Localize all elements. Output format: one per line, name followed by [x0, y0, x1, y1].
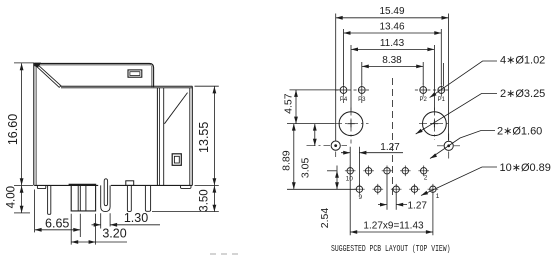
dim 15.49 line — [336, 17, 449, 19]
dim 3.05 line — [314, 124, 316, 146]
svg-text:1.27: 1.27 — [408, 200, 428, 211]
svg-text:1: 1 — [436, 193, 440, 200]
svg-text:15.49: 15.49 — [379, 6, 404, 17]
svg-text:1.30: 1.30 — [124, 211, 148, 225]
svg-text:1.27: 1.27 — [380, 142, 400, 153]
pin 4 extension lines for dim 1.30 — [101, 213, 110, 228]
dim 4.57 line — [295, 90, 297, 124]
big hole left — [339, 112, 363, 136]
svg-text:4.57: 4.57 — [282, 93, 294, 114]
dim 8.38 line — [362, 65, 423, 67]
svg-text:2: 2 — [424, 174, 428, 181]
pin 3 block pin body — [71, 185, 95, 211]
dim 1.27 lower line — [378, 204, 407, 206]
grid pad row2 — [354, 184, 438, 195]
svg-text:P2: P2 — [420, 97, 428, 103]
dim 11.43 line — [351, 48, 434, 50]
dim 3.20 extension lines — [71, 214, 95, 245]
svg-text:SUGGESTED PCB LAYOUT (TOP VIEW: SUGGESTED PCB LAYOUT (TOP VIEW) — [331, 243, 451, 254]
svg-text:3.50: 3.50 — [199, 189, 211, 211]
dim 13.55 extension lines — [195, 86, 219, 185]
dim 6.65 extension lines — [35, 190, 81, 238]
flange left vertical edges — [156, 88, 158, 185]
pad P4 — [335, 83, 351, 103]
svg-text:9: 9 — [358, 194, 362, 201]
dim 1.27 upper line — [341, 152, 403, 154]
leader 4*D1.02 — [430, 61, 497, 98]
dim 8.38 extension lines — [362, 62, 423, 85]
relay body inner edge lines — [36, 65, 151, 185]
body bottom edge — [34, 184, 192, 186]
dim 3.50 line — [213, 186, 215, 212]
dim 1.27 upper ticks — [350, 147, 359, 186]
svg-text:13.46: 13.46 — [379, 22, 404, 33]
dim 11.43 extension lines — [351, 45, 434, 111]
svg-text:10∗Ø0.89: 10∗Ø0.89 — [500, 162, 551, 174]
dim 1.27x9 extension lines — [350, 158, 433, 235]
dim 1.27 lower extension lines — [387, 176, 396, 210]
svg-text:3.20: 3.20 — [102, 227, 126, 241]
pin 6 thin pin — [145, 185, 150, 211]
pin 4 fork pin outer — [101, 185, 110, 211]
svg-text:2∗Ø1.60: 2∗Ø1.60 — [497, 125, 542, 137]
svg-text:8.89: 8.89 — [280, 150, 292, 171]
dim 3.20 line — [71, 241, 127, 243]
dim 16.60 line — [21, 63, 23, 185]
flange diagonal chamfer — [164, 93, 187, 124]
top face front edge double line — [60, 85, 193, 87]
svg-text:1.27x9=11.43: 1.27x9=11.43 — [363, 221, 424, 232]
top-left chamfer double line — [37, 64, 62, 87]
leader 2*D3.25 — [416, 94, 497, 135]
bottom tab under flange — [181, 185, 192, 188]
left extension line bottom grid row — [287, 188, 356, 190]
dim 13.46 extension lines — [344, 29, 444, 86]
pin 3 block pin cap — [69, 184, 97, 186]
dim 4.00 line — [21, 186, 23, 213]
svg-text:16.60: 16.60 — [6, 114, 20, 145]
pin 3 internal lines — [78, 185, 86, 211]
small hole right — [444, 141, 453, 150]
vent rectangle on top face — [128, 70, 142, 77]
dim 15.49 extension lines — [336, 14, 449, 141]
dim 13.46 line — [344, 32, 442, 34]
svg-text:3.05: 3.05 — [299, 158, 311, 179]
dim 3.50 bottom extension — [152, 211, 219, 213]
flange rectangular hole — [172, 154, 181, 166]
svg-text:13.55: 13.55 — [197, 122, 211, 153]
dim 4.00 bottom extension — [14, 212, 30, 214]
pin 2 thin pin — [48, 185, 51, 214]
big hole right — [423, 112, 447, 136]
pad P2 — [415, 83, 431, 96]
svg-text:2.54: 2.54 — [319, 208, 331, 229]
left extension line big hole row — [287, 123, 334, 125]
pin 1 flat tab — [37, 185, 45, 188]
relay body outer outline — [34, 63, 154, 185]
central dashed axis — [392, 78, 394, 199]
dim 2.54 extension and line — [327, 170, 337, 172]
leader 10*D0.89 — [421, 167, 497, 196]
svg-text:4∗Ø1.02: 4∗Ø1.02 — [500, 54, 545, 66]
pin 5 shank — [127, 185, 131, 211]
grid pad row1 — [345, 166, 429, 177]
pad P3 — [354, 83, 370, 103]
dim 13.55 line — [213, 86, 215, 185]
svg-text:2∗Ø3.25: 2∗Ø3.25 — [500, 88, 545, 100]
dim 1.30 line and outside arrows — [92, 224, 161, 226]
svg-text:10: 10 — [346, 176, 354, 183]
dim 16.60 extension lines — [14, 63, 34, 186]
svg-text:11.43: 11.43 — [380, 38, 405, 49]
svg-text:8.38: 8.38 — [382, 55, 402, 66]
svg-text:6.65: 6.65 — [45, 217, 69, 231]
faint watermark dashes — [210, 253, 243, 255]
body top-left corner fill — [34, 63, 41, 68]
leader 2*D1.60 — [430, 131, 495, 159]
flange right vertical edges — [189, 88, 191, 185]
pin 4 fork pin slot — [104, 179, 107, 206]
left extension line pad row — [290, 89, 340, 91]
svg-text:P3: P3 — [358, 97, 366, 103]
dim 8.89 line — [293, 124, 295, 190]
svg-text:P4: P4 — [340, 97, 348, 103]
small hole left — [331, 141, 340, 150]
pad P1 — [433, 83, 449, 96]
dim 1.27x9 line — [350, 231, 433, 233]
svg-text:4.00: 4.00 — [6, 186, 18, 208]
svg-text:P1: P1 — [438, 97, 446, 103]
dim 6.65 line — [35, 229, 81, 231]
pin 5 boss — [126, 181, 134, 186]
